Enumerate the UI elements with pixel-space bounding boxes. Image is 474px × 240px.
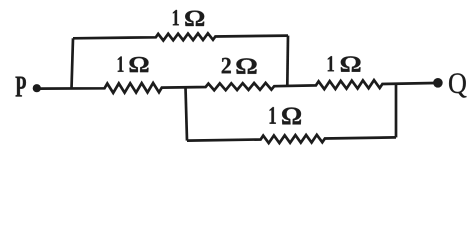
wire: main line from P to Q containing resistors R1, R2, R3 [40, 80, 435, 93]
wire: top branch right vertical riser [286, 36, 289, 86]
value label 1 ohm (top resistor) [173, 10, 179, 25]
value label 1 ohm (resistor R1) [118, 56, 124, 71]
node label P [16, 77, 26, 97]
wire: top branch left vertical riser [72, 38, 74, 88]
value label 2 ohm (resistor R2) [222, 58, 231, 74]
value label 1 ohm (resistor R3) [328, 56, 334, 71]
node P terminal dot [33, 84, 41, 92]
wire: bottom branch right vertical riser [395, 84, 398, 138]
value label 1 ohm (bottom resistor) [270, 107, 276, 124]
node Q terminal dot [433, 78, 443, 88]
wire: top branch horizontal with top resistor [73, 33, 288, 40]
node label Q [449, 73, 466, 97]
wire: bottom branch horizontal with bottom resistor [187, 135, 396, 143]
wire: bottom branch left vertical drop [186, 87, 188, 140]
